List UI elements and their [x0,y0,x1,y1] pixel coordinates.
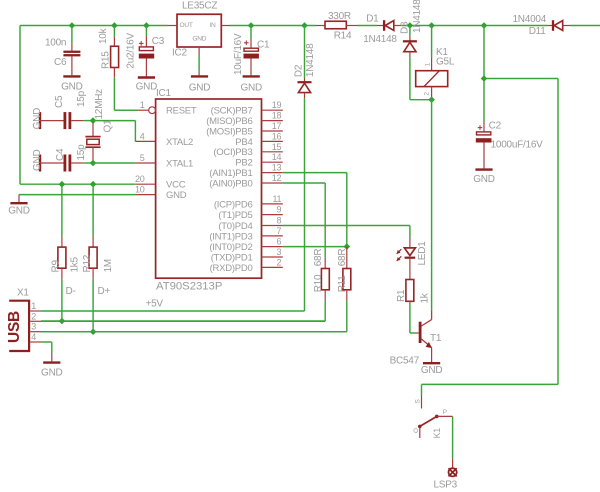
svg-text:1000uF/16V: 1000uF/16V [491,140,544,151]
svg-text:2: 2 [31,311,36,321]
svg-text:D+: D+ [98,286,111,297]
svg-text:GND: GND [189,83,211,94]
svg-text:1M: 1M [103,259,114,272]
svg-text:BC547: BC547 [390,356,420,367]
svg-text:GND: GND [8,206,30,217]
svg-text:C6: C6 [54,57,67,68]
svg-text:IC2: IC2 [172,48,188,59]
svg-text:8: 8 [277,216,282,226]
svg-text:GND: GND [192,36,206,43]
svg-text:GND: GND [166,190,187,201]
svg-text:GND: GND [473,174,495,185]
svg-text:2u2/16V: 2u2/16V [126,33,137,69]
svg-text:1: 1 [31,301,36,311]
svg-text:1k5: 1k5 [70,256,81,272]
svg-text:68R: 68R [337,249,348,267]
svg-text:D1: D1 [366,14,379,25]
svg-text:(SCK)PB7: (SCK)PB7 [211,106,253,117]
svg-text:14: 14 [272,152,282,162]
svg-text:(AIN1)PB1: (AIN1)PB1 [209,168,252,179]
svg-text:XTAL1: XTAL1 [166,158,193,169]
svg-text:12MHz: 12MHz [94,89,105,120]
svg-text:1N4148: 1N4148 [363,34,397,45]
svg-text:D2: D2 [293,64,304,77]
svg-text:(MOSI)PB5: (MOSI)PB5 [206,126,252,137]
svg-text:XTAL2: XTAL2 [166,137,193,148]
svg-text:GND: GND [61,81,83,92]
svg-text:11: 11 [272,194,281,204]
svg-text:7: 7 [277,226,282,236]
svg-text:(INT0)PD2: (INT0)PD2 [209,242,252,253]
svg-text:LED1: LED1 [417,241,428,266]
svg-text:O: O [413,428,420,433]
svg-text:K1: K1 [432,428,442,439]
svg-text:D3: D3 [399,21,410,34]
svg-text:D11: D11 [529,26,547,37]
svg-text:(OCI)PB3: (OCI)PB3 [213,147,252,158]
svg-text:C3: C3 [152,36,165,47]
svg-text:GND: GND [240,83,262,94]
svg-text:AT90S2313P: AT90S2313P [156,281,222,293]
svg-text:10k: 10k [98,27,109,44]
svg-text:100n: 100n [45,38,66,49]
svg-text:G5L: G5L [436,56,455,67]
svg-text:R14: R14 [334,31,352,42]
svg-text:R12: R12 [82,254,93,272]
svg-text:1N4004: 1N4004 [513,14,547,25]
svg-text:+5V: +5V [146,299,164,310]
svg-text:(AIN0)PB0: (AIN0)PB0 [209,178,252,189]
svg-text:1N4148: 1N4148 [305,43,316,77]
svg-text:13: 13 [272,163,282,173]
svg-text:1: 1 [140,100,145,110]
svg-text:D-: D- [66,286,76,297]
svg-text:3: 3 [277,247,282,257]
svg-text:R10: R10 [313,274,324,292]
svg-text:GND: GND [32,150,43,172]
svg-text:4: 4 [31,332,36,342]
svg-text:GND: GND [421,365,443,376]
svg-text:(ICP)PD6: (ICP)PD6 [214,199,253,210]
svg-text:VCC: VCC [166,180,186,191]
svg-text:OUT: OUT [180,22,193,29]
svg-text:12: 12 [272,173,282,183]
svg-text:R1: R1 [396,289,407,302]
svg-text:19: 19 [272,100,282,110]
svg-text:20: 20 [135,174,145,184]
svg-text:68R: 68R [313,249,324,267]
svg-text:GND: GND [41,368,63,379]
svg-text:S: S [414,399,421,403]
svg-text:18: 18 [272,111,282,121]
svg-text:IN: IN [209,22,216,29]
svg-text:(T0)PD4: (T0)PD4 [218,221,252,232]
svg-text:GND: GND [32,108,43,130]
svg-text:X1: X1 [17,288,29,299]
svg-text:10uF/16V: 10uF/16V [233,33,244,75]
svg-text:USB: USB [6,311,23,343]
svg-text:T1: T1 [430,333,442,344]
svg-text:9: 9 [277,205,282,215]
svg-text:P: P [443,409,447,416]
svg-text:(T1)PD5: (T1)PD5 [218,210,252,221]
svg-text:C2: C2 [489,121,502,132]
svg-text:R9: R9 [51,260,62,273]
svg-text:C1: C1 [257,40,270,51]
svg-text:LSP3: LSP3 [434,480,458,491]
svg-text:15p: 15p [76,144,87,161]
svg-text:PB2: PB2 [235,158,252,169]
svg-text:6: 6 [277,237,282,247]
svg-text:1k: 1k [420,292,431,303]
svg-text:2: 2 [277,257,282,267]
svg-text:330R: 330R [328,11,351,22]
svg-text:C5: C5 [54,95,65,108]
svg-text:PB4: PB4 [235,137,252,148]
svg-text:15: 15 [272,142,282,152]
svg-text:(RXD)PD0: (RXD)PD0 [210,263,253,274]
svg-text:5: 5 [140,153,145,163]
svg-text:(MISO)PB6: (MISO)PB6 [206,116,252,127]
svg-text:R15: R15 [101,51,112,69]
svg-text:(TXD)PD1: (TXD)PD1 [211,252,253,263]
svg-text:16: 16 [272,131,282,141]
svg-text:(INT1)PD3: (INT1)PD3 [209,231,252,242]
svg-text:17: 17 [272,121,282,131]
svg-text:10: 10 [135,185,145,195]
svg-text:15p: 15p [76,90,87,107]
svg-text:4: 4 [140,131,145,141]
svg-text:1N4148: 1N4148 [412,0,423,33]
svg-text:Q1: Q1 [103,119,114,133]
svg-text:R11: R11 [337,275,348,293]
svg-text:LE35CZ: LE35CZ [182,1,217,12]
svg-text:GND: GND [136,82,158,93]
svg-text:RESET: RESET [166,106,197,117]
svg-text:IC1: IC1 [156,88,172,99]
svg-text:3: 3 [31,322,36,332]
svg-text:C4: C4 [55,148,66,161]
